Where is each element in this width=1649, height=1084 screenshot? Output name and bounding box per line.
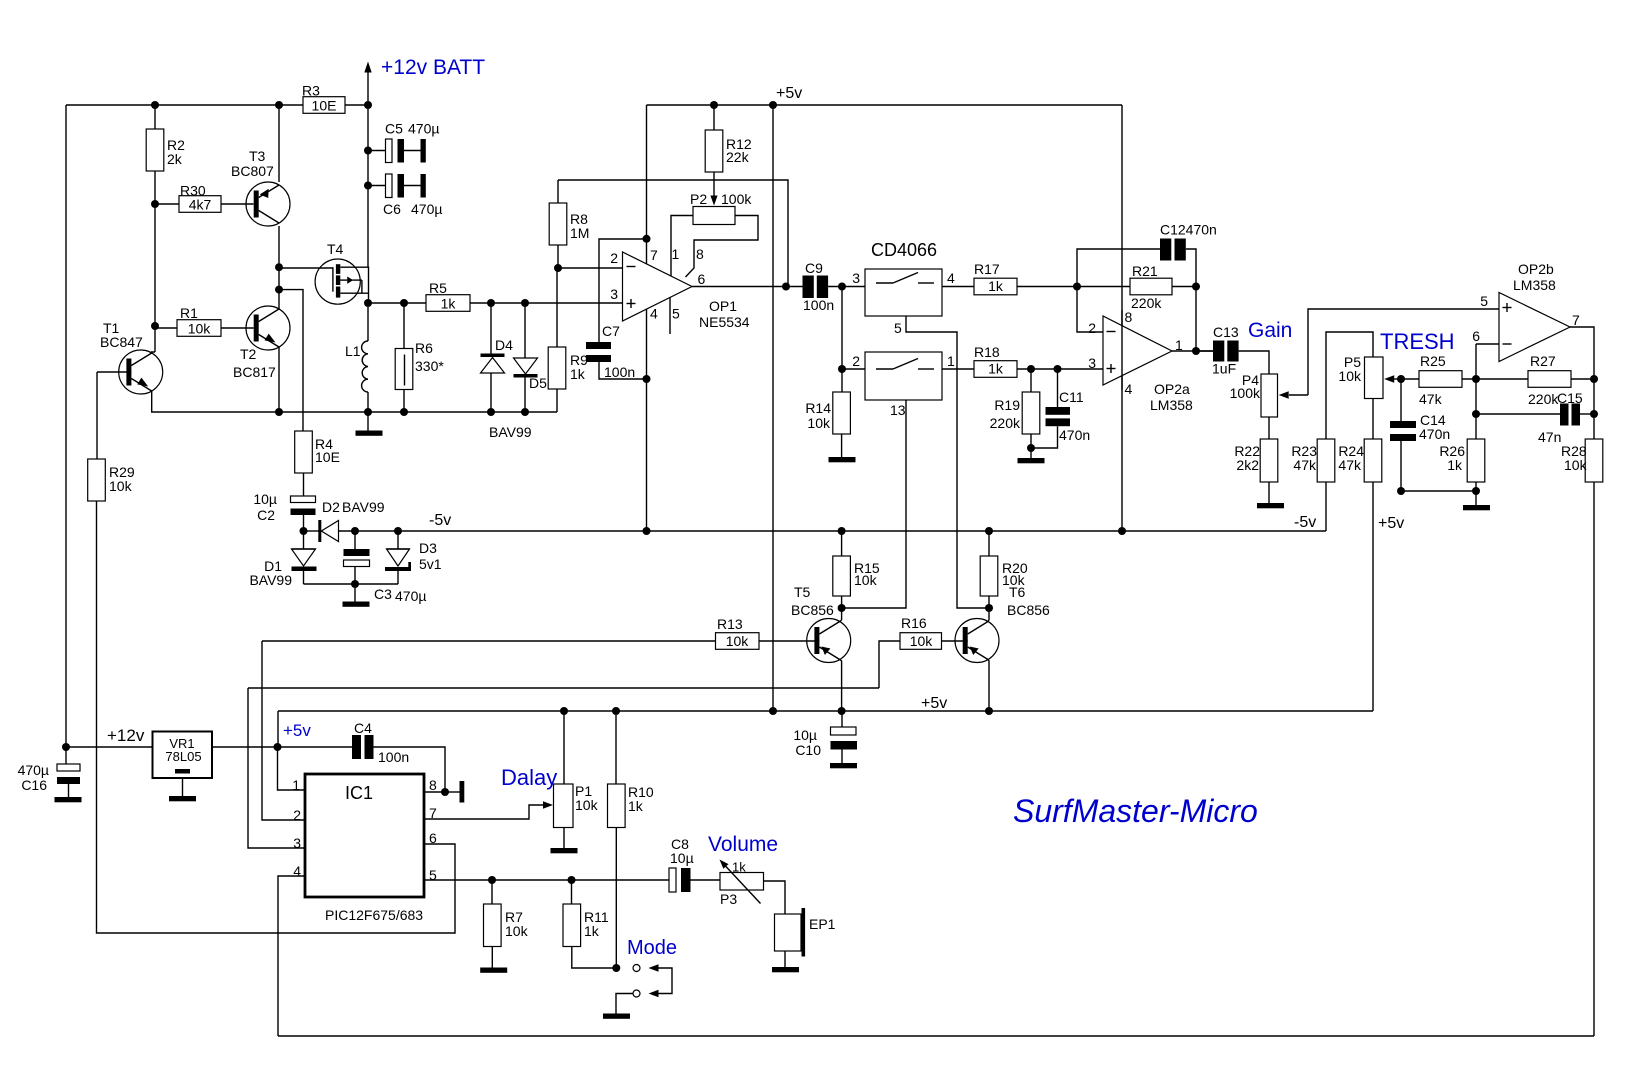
svg-text:2: 2 — [610, 250, 618, 266]
svg-text:C10: C10 — [795, 742, 821, 758]
svg-text:Dalay: Dalay — [501, 765, 557, 790]
svg-text:R21: R21 — [1132, 263, 1158, 279]
svg-text:R18: R18 — [974, 344, 1000, 360]
svg-text:2k: 2k — [167, 151, 183, 167]
svg-text:47n: 47n — [1538, 429, 1561, 445]
svg-text:-5v: -5v — [429, 512, 451, 529]
svg-text:470n: 470n — [1419, 426, 1450, 442]
svg-text:C15: C15 — [1557, 390, 1583, 406]
svg-text:78L05: 78L05 — [165, 749, 201, 764]
svg-text:CD4066: CD4066 — [871, 240, 937, 260]
svg-text:-5v: -5v — [1294, 514, 1316, 531]
svg-text:5v1: 5v1 — [419, 556, 442, 572]
svg-text:+5v: +5v — [921, 695, 947, 712]
svg-text:2k2: 2k2 — [1236, 457, 1259, 473]
svg-text:C11: C11 — [1059, 389, 1084, 405]
svg-text:+12v BATT: +12v BATT — [381, 56, 485, 79]
svg-text:470µ: 470µ — [408, 121, 439, 137]
svg-text:2: 2 — [852, 353, 860, 369]
svg-text:1k: 1k — [732, 860, 746, 875]
svg-text:47k: 47k — [1419, 391, 1443, 407]
svg-text:T3: T3 — [249, 148, 266, 164]
svg-text:R16: R16 — [901, 615, 927, 631]
svg-text:22k: 22k — [726, 149, 750, 165]
svg-text:470µ: 470µ — [411, 201, 442, 217]
svg-text:100k: 100k — [1230, 385, 1261, 401]
svg-text:PIC12F675/683: PIC12F675/683 — [325, 907, 423, 923]
svg-text:1: 1 — [1175, 337, 1183, 353]
svg-text:10µ: 10µ — [253, 491, 277, 507]
svg-text:3: 3 — [293, 835, 301, 851]
svg-text:100n: 100n — [378, 749, 409, 765]
svg-text:4k7: 4k7 — [189, 197, 212, 213]
svg-text:R25: R25 — [1420, 353, 1446, 369]
svg-text:1: 1 — [672, 246, 680, 262]
svg-text:R27: R27 — [1530, 353, 1556, 369]
svg-text:2: 2 — [293, 807, 301, 823]
svg-text:R13: R13 — [717, 616, 743, 632]
svg-text:3: 3 — [1088, 355, 1096, 371]
svg-text:100n: 100n — [803, 297, 834, 313]
svg-text:EP1: EP1 — [809, 916, 836, 932]
svg-text:R6: R6 — [415, 340, 433, 356]
svg-text:R19: R19 — [994, 397, 1020, 413]
svg-text:NE5534: NE5534 — [699, 314, 750, 330]
svg-text:C9: C9 — [805, 260, 823, 276]
svg-text:1k: 1k — [441, 296, 457, 312]
svg-text:47k: 47k — [1338, 457, 1362, 473]
svg-text:1k: 1k — [988, 361, 1004, 377]
svg-text:P2: P2 — [690, 191, 707, 207]
svg-text:6: 6 — [698, 271, 706, 287]
svg-text:6: 6 — [1472, 328, 1480, 344]
svg-text:Volume: Volume — [708, 833, 778, 856]
svg-text:3: 3 — [610, 286, 618, 302]
svg-text:220k: 220k — [1528, 391, 1559, 407]
svg-text:470µ: 470µ — [395, 588, 426, 604]
svg-text:10k: 10k — [1002, 572, 1026, 588]
svg-text:+5v: +5v — [283, 721, 311, 740]
svg-text:4: 4 — [947, 270, 955, 286]
svg-text:1k: 1k — [584, 923, 600, 939]
svg-text:7: 7 — [1572, 312, 1580, 328]
svg-text:4: 4 — [650, 306, 658, 322]
svg-text:470n: 470n — [1059, 427, 1090, 443]
svg-text:220k: 220k — [990, 415, 1021, 431]
svg-text:4: 4 — [1125, 381, 1133, 397]
svg-text:10k: 10k — [854, 572, 878, 588]
svg-text:C12470n: C12470n — [1160, 222, 1217, 238]
svg-text:D2: D2 — [322, 499, 340, 515]
svg-text:100k: 100k — [721, 191, 752, 207]
svg-text:4: 4 — [293, 863, 301, 879]
svg-text:8: 8 — [429, 777, 437, 793]
svg-text:1: 1 — [947, 353, 955, 369]
svg-text:R17: R17 — [974, 261, 1000, 277]
svg-text:+5v: +5v — [1378, 515, 1404, 532]
svg-text:C5: C5 — [385, 121, 403, 137]
svg-text:BAV99: BAV99 — [249, 572, 292, 588]
svg-text:10k: 10k — [109, 478, 133, 494]
svg-text:L1: L1 — [345, 343, 361, 359]
svg-text:10k: 10k — [505, 923, 529, 939]
svg-text:OP2b: OP2b — [1518, 261, 1554, 277]
svg-text:P3: P3 — [720, 891, 737, 907]
svg-text:8: 8 — [696, 246, 704, 262]
svg-text:10E: 10E — [315, 449, 340, 465]
svg-text:LM358: LM358 — [1513, 277, 1556, 293]
svg-text:T4: T4 — [327, 241, 344, 257]
svg-text:C3: C3 — [374, 586, 392, 602]
svg-text:7: 7 — [429, 805, 437, 821]
svg-text:R5: R5 — [429, 280, 447, 296]
svg-text:100n: 100n — [604, 364, 635, 380]
svg-text:LM358: LM358 — [1150, 397, 1193, 413]
svg-text:5: 5 — [429, 867, 437, 883]
svg-text:220k: 220k — [1131, 295, 1162, 311]
svg-text:10E: 10E — [312, 98, 337, 114]
svg-text:BAV99: BAV99 — [342, 499, 385, 515]
svg-text:6: 6 — [429, 830, 437, 846]
svg-text:BC807: BC807 — [231, 163, 274, 179]
svg-text:1k: 1k — [570, 366, 586, 382]
svg-text:1uF: 1uF — [1212, 361, 1236, 377]
svg-text:1k: 1k — [988, 278, 1004, 294]
svg-text:R3: R3 — [302, 83, 320, 99]
svg-text:470µ: 470µ — [18, 762, 49, 778]
svg-text:10µ: 10µ — [670, 850, 694, 866]
svg-text:D5: D5 — [529, 375, 547, 391]
svg-text:C4: C4 — [354, 720, 372, 736]
svg-text:D4: D4 — [495, 337, 513, 353]
svg-text:BC856: BC856 — [791, 602, 834, 618]
svg-text:+5v: +5v — [776, 85, 802, 102]
svg-text:3: 3 — [852, 270, 860, 286]
svg-text:OP2a: OP2a — [1154, 381, 1190, 397]
svg-text:10k: 10k — [575, 797, 599, 813]
svg-text:IC1: IC1 — [345, 783, 373, 803]
svg-text:5: 5 — [672, 306, 680, 322]
svg-text:2: 2 — [1088, 320, 1096, 336]
svg-text:1k: 1k — [628, 798, 644, 814]
svg-text:BC817: BC817 — [233, 364, 276, 380]
svg-text:1k: 1k — [1447, 457, 1463, 473]
svg-text:10k: 10k — [1338, 368, 1362, 384]
svg-text:10k: 10k — [188, 321, 212, 337]
svg-text:10k: 10k — [807, 415, 831, 431]
svg-text:5: 5 — [1480, 293, 1488, 309]
svg-text:8: 8 — [1125, 309, 1133, 325]
svg-text:T5: T5 — [794, 584, 811, 600]
svg-text:10k: 10k — [910, 633, 934, 649]
svg-text:Mode: Mode — [627, 937, 677, 959]
svg-text:10k: 10k — [1564, 457, 1588, 473]
svg-text:BAV99: BAV99 — [489, 424, 532, 440]
svg-text:D3: D3 — [419, 540, 437, 556]
svg-text:5: 5 — [894, 320, 902, 336]
svg-text:OP1: OP1 — [709, 298, 737, 314]
svg-text:BC847: BC847 — [100, 334, 143, 350]
svg-text:SurfMaster-Micro: SurfMaster-Micro — [1013, 793, 1258, 829]
svg-text:C16: C16 — [21, 777, 47, 793]
svg-text:R1: R1 — [180, 305, 198, 321]
svg-text:C2: C2 — [257, 507, 275, 523]
svg-text:R14: R14 — [805, 400, 831, 416]
svg-text:1: 1 — [292, 777, 300, 793]
svg-text:C13: C13 — [1213, 324, 1239, 340]
svg-text:T2: T2 — [240, 346, 257, 362]
svg-text:+12v: +12v — [107, 726, 145, 745]
svg-text:330*: 330* — [415, 358, 444, 374]
svg-text:10µ: 10µ — [793, 727, 817, 743]
svg-text:7: 7 — [650, 247, 658, 263]
svg-text:10k: 10k — [726, 633, 750, 649]
svg-text:Gain: Gain — [1248, 319, 1292, 342]
svg-text:C6: C6 — [383, 201, 401, 217]
svg-text:C7: C7 — [602, 323, 620, 339]
svg-text:47k: 47k — [1293, 457, 1317, 473]
svg-text:1M: 1M — [570, 225, 589, 241]
svg-text:TRESH: TRESH — [1380, 329, 1455, 354]
svg-text:BC856: BC856 — [1007, 602, 1050, 618]
svg-text:13: 13 — [890, 402, 906, 418]
